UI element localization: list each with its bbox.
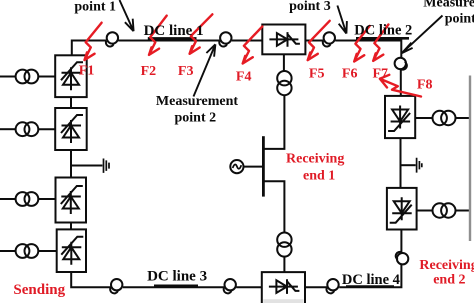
wire loop4 to converter U6 top — [400, 69, 402, 96]
arrow from point 1 — [120, 0, 134, 31]
arrow from Measurement point 2 — [194, 44, 216, 96]
svg-text:DC line 4: DC line 4 — [342, 272, 400, 288]
thyristor in U4 — [61, 237, 83, 265]
svg-text:point 1: point 1 — [74, 0, 116, 15]
underline of DC line 4 — [346, 285, 394, 288]
wire top-left corner to loop1 — [72, 41, 106, 56]
smoothing reactor loop8 (bottom right vertical) — [397, 253, 408, 264]
wire loop3 to top-right corner down to loop4 — [335, 41, 401, 58]
wire loop2 to converter U5 — [232, 40, 263, 42]
wire U5 to transformer T5 — [283, 54, 285, 71]
svg-text:Receiving: Receiving — [286, 151, 344, 166]
converter U7 box (right bottom) — [387, 188, 417, 230]
svg-text:F1: F1 — [79, 64, 95, 79]
wire left edge to T3 — [0, 198, 16, 200]
transformer T2 — [16, 122, 30, 136]
wire U6 to U7 — [400, 138, 402, 188]
transformer T6 (middle lower) — [277, 233, 291, 247]
wire DC line 3 loop5 to loop6 — [123, 286, 224, 288]
wire U5 to loop3 — [305, 40, 323, 42]
transformer T4 — [16, 244, 30, 258]
thyristor in U1 — [61, 62, 83, 90]
svg-text:F7: F7 — [373, 66, 389, 81]
fault bolt F1 — [85, 23, 102, 60]
smoothing reactor loop5 — [111, 279, 122, 290]
fault bolt F8 — [380, 75, 421, 97]
fault bolt F5 — [308, 21, 330, 60]
svg-text:end 2: end 2 — [433, 273, 465, 288]
svg-text:DC line 1: DC line 1 — [144, 23, 204, 39]
fault bolt F3 — [190, 14, 213, 54]
converter U6 box (right top) — [385, 96, 415, 138]
svg-text:point 3: point 3 — [289, 0, 331, 14]
smoothing reactor loop2 — [220, 32, 231, 43]
wire T4 to U4 — [38, 250, 56, 252]
transformer T5 (middle upper) — [277, 71, 291, 85]
wire T3 to U3 — [38, 198, 55, 200]
wire U1 to U2 — [70, 97, 72, 108]
svg-text:point 4: point 4 — [445, 12, 474, 27]
thyristor in U5 — [269, 32, 300, 47]
svg-text:F4: F4 — [236, 70, 252, 85]
smoothing reactor loop3 — [324, 32, 335, 43]
wire busbar to transformer T6 — [262, 181, 284, 232]
wire loop6 to converter U8 — [236, 286, 262, 288]
ground G2 — [417, 158, 422, 173]
wire left edge to T1 — [0, 76, 16, 78]
converter U1 box — [55, 55, 86, 97]
smoothing reactor loop4 (top right vertical) — [395, 58, 406, 69]
wire U3 to U4 — [70, 223, 72, 230]
fault bolt F4 — [243, 27, 263, 64]
wire U6 to transformer T7 — [415, 117, 432, 119]
wire U8 to loop7 — [305, 286, 327, 288]
thyristor in U7 — [390, 197, 412, 223]
svg-text:F5: F5 — [309, 67, 325, 82]
wire loop7 along DC line 4 to right corner up to loop8 — [339, 265, 401, 288]
thyristor in U6 — [388, 106, 410, 132]
AC source sine — [233, 164, 242, 168]
svg-text:F8: F8 — [417, 78, 433, 93]
smoothing reactor loop1 — [107, 32, 118, 43]
svg-text:point 2: point 2 — [174, 110, 216, 125]
underline of DC line 2 — [356, 37, 409, 40]
wire loop1 to loop2 — [118, 40, 219, 42]
fault bolt F7 — [373, 25, 388, 61]
fault bolt F6 — [354, 26, 370, 62]
converter U3 box — [56, 178, 87, 223]
svg-text:F6: F6 — [342, 66, 358, 81]
AC source circle — [230, 160, 243, 173]
svg-text:Measurement: Measurement — [423, 0, 474, 11]
transformer T8 (right lower) — [433, 203, 447, 217]
wire T5 down and left to busbar — [265, 95, 285, 149]
converter U4 box — [57, 229, 86, 272]
wire to ground G1 — [71, 165, 102, 167]
wire U7 to transformer T8 — [417, 210, 433, 212]
svg-text:F3: F3 — [178, 64, 194, 79]
ground G1 — [104, 159, 110, 173]
svg-text:DC line 3: DC line 3 — [147, 269, 207, 285]
arrow from point 3 — [337, 6, 347, 34]
wire T6 to converter U8 top — [283, 257, 285, 273]
svg-text:DC line 2: DC line 2 — [354, 23, 412, 39]
transformer T3 — [16, 192, 30, 206]
wire to ground G2 — [401, 164, 416, 166]
converter U2 box — [55, 108, 86, 150]
wire U2 to U3 — [70, 150, 72, 178]
wire U4 bottom corner to loop5 — [71, 272, 110, 287]
converter U5 box (top middle) — [262, 25, 305, 55]
wire T7 to right busbar — [456, 117, 470, 119]
svg-text:Measurement: Measurement — [156, 94, 238, 109]
svg-text:end 1: end 1 — [303, 169, 335, 184]
wire T1 to U1 — [38, 76, 55, 78]
arrow from Measurement point 4 — [402, 16, 443, 54]
converter U8 box (bottom middle, bottom edge clipped) — [263, 299, 303, 303]
thyristor in U8 — [269, 279, 300, 294]
wire AC source to busbar — [243, 166, 262, 168]
svg-text:Receiving: Receiving — [419, 258, 474, 273]
transformer T1 — [16, 70, 30, 84]
busbar receiving end 2 (grey) — [469, 76, 471, 242]
transformer T7 (right upper) — [433, 111, 447, 125]
smoothing reactor loop6 — [225, 279, 236, 290]
wire T8 to right busbar — [456, 210, 470, 212]
wire left edge to T4 — [0, 250, 16, 252]
thyristor in U3 — [61, 186, 83, 214]
wire T2 to U2 — [38, 128, 55, 130]
underline of DC line 3 — [154, 285, 198, 288]
wire loop8 to converter U7 bottom — [400, 230, 402, 253]
busbar receiving end 1 — [262, 136, 265, 196]
smoothing reactor loop7 — [327, 279, 338, 290]
svg-text:Sending: Sending — [13, 282, 65, 298]
wire left edge to T2 — [0, 128, 16, 130]
underline of DC line 1 — [148, 37, 197, 40]
fault bolt F2 — [149, 16, 167, 55]
thyristor in U2 — [61, 115, 83, 143]
svg-text:F2: F2 — [141, 64, 157, 79]
